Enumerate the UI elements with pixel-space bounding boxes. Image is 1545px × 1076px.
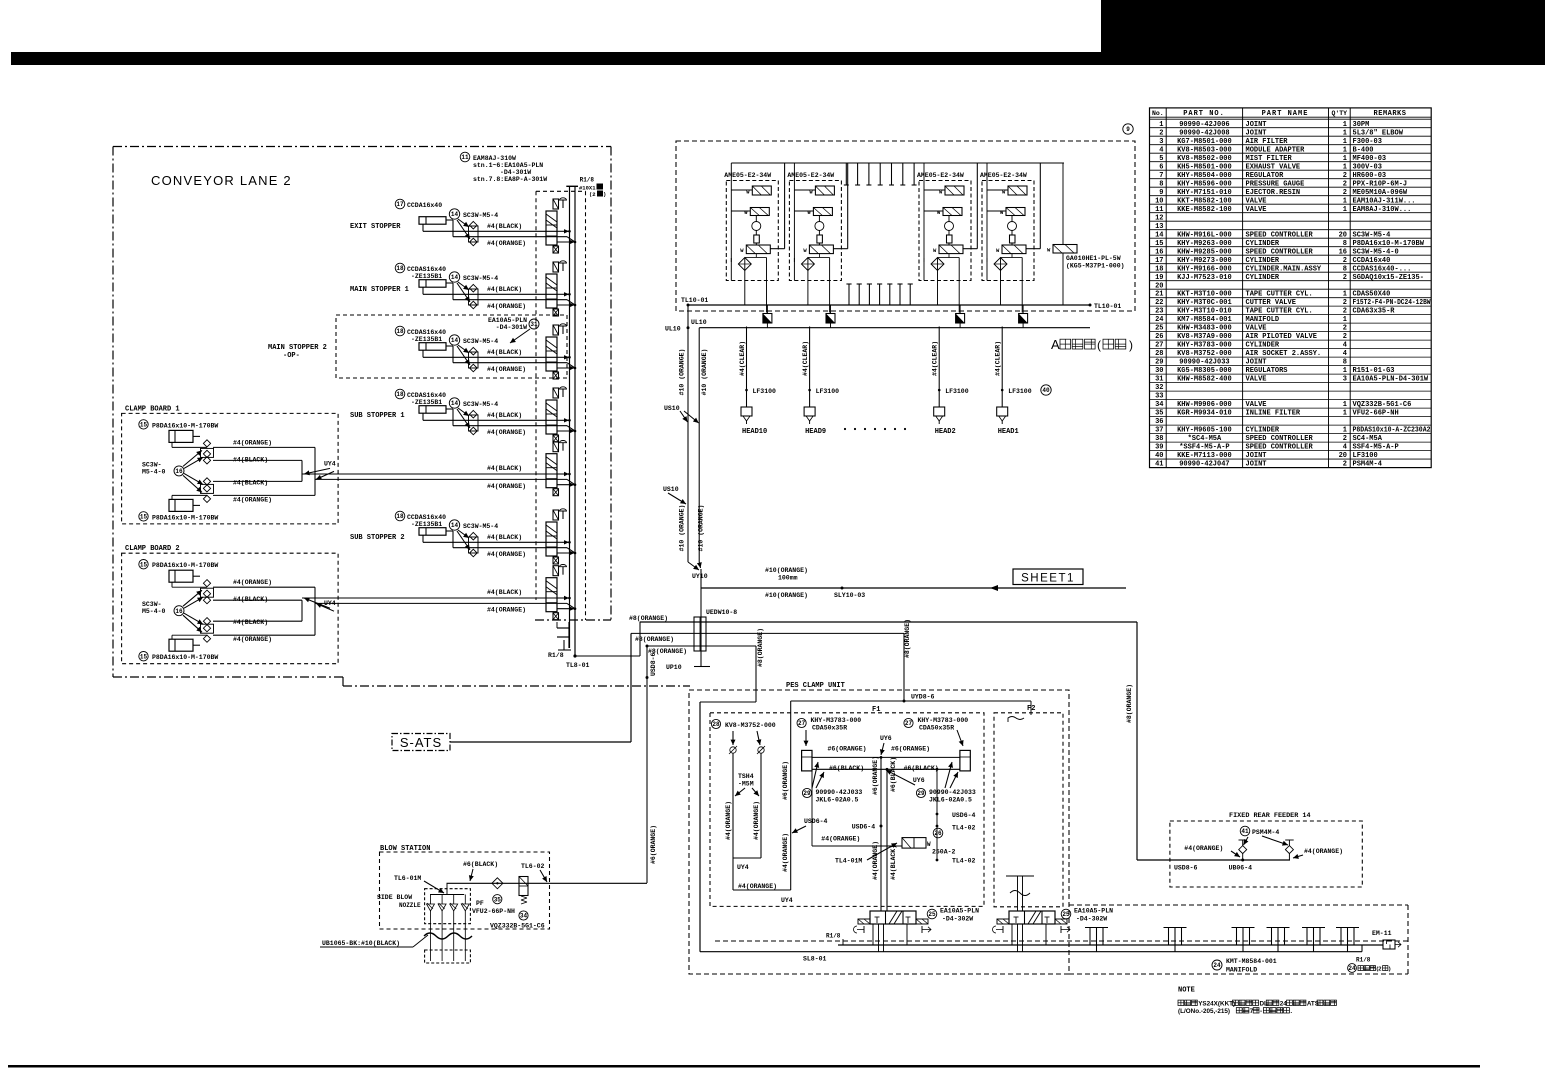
svg-text:14: 14 — [451, 211, 459, 218]
svg-text:NOZZLE: NOZZLE — [399, 902, 421, 909]
svg-text:KV8-M8503-000: KV8-M8503-000 — [1177, 146, 1232, 154]
svg-text:29: 29 — [1155, 359, 1163, 367]
svg-text:1: 1 — [1343, 367, 1347, 375]
svg-text:KHY-M3T0C-001: KHY-M3T0C-001 — [1177, 299, 1232, 307]
svg-text:CCDAS16x40: CCDAS16x40 — [407, 329, 446, 336]
svg-text:R1/8: R1/8 — [1356, 957, 1371, 964]
svg-text:16: 16 — [1155, 248, 1163, 256]
svg-text:USD6-4: USD6-4 — [804, 818, 828, 825]
svg-text:34: 34 — [520, 913, 528, 920]
svg-text:YS24X(KKT): YS24X(KKT) — [1198, 1001, 1235, 1008]
pipe manifold main — [826, 933, 1383, 946]
svg-text:KHY-M7151-010: KHY-M7151-010 — [1177, 189, 1232, 197]
union UEDW10-8 — [694, 588, 737, 666]
svg-text:9: 9 — [1126, 126, 1130, 133]
svg-text:SC3W-M5-4: SC3W-M5-4 — [463, 401, 498, 408]
svg-text:17: 17 — [1155, 257, 1163, 265]
valve EA10A5 no.2 — [993, 908, 1114, 952]
svg-text:#8(ORANGE): #8(ORANGE) — [1126, 684, 1133, 723]
valve manifold column dashed borders — [536, 191, 586, 620]
svg-text:#6(ORANGE): #6(ORANGE) — [828, 746, 867, 753]
svg-text:#4(ORANGE): #4(ORANGE) — [487, 551, 526, 558]
svg-text:16: 16 — [1339, 248, 1347, 256]
svg-text:PSM4M-4: PSM4M-4 — [1353, 461, 1382, 469]
svg-text:27: 27 — [1155, 342, 1163, 350]
svg-text:25: 25 — [1155, 325, 1163, 333]
svg-text:JOINT: JOINT — [1246, 121, 1267, 129]
head branch HEAD9 — [802, 305, 839, 436]
svg-text:2: 2 — [1343, 333, 1347, 341]
svg-text:2: 2 — [1343, 299, 1347, 307]
svg-text:CLAMP BOARD 2: CLAMP BOARD 2 — [125, 545, 180, 553]
svg-text:SC3W-M5-4: SC3W-M5-4 — [1353, 231, 1391, 239]
svg-text:1: 1 — [1343, 146, 1347, 154]
svg-text:LF3100: LF3100 — [816, 388, 840, 395]
svg-text:32: 32 — [1155, 384, 1163, 392]
ellipsis between heads — [844, 428, 906, 430]
svg-text:TL10-01: TL10-01 — [681, 297, 708, 304]
parts table — [1150, 108, 1432, 469]
svg-text:35: 35 — [1155, 410, 1163, 418]
svg-text:18: 18 — [396, 391, 404, 398]
svg-text:22: 22 — [1155, 299, 1163, 307]
svg-text:JOINT: JOINT — [1246, 359, 1267, 367]
svg-text:4: 4 — [1343, 444, 1347, 452]
svg-text:2: 2 — [1343, 172, 1347, 180]
svg-text:JKL6-02A0.5: JKL6-02A0.5 — [929, 797, 972, 804]
svg-text:30: 30 — [1155, 367, 1163, 375]
svg-text:KKE-M8582-100: KKE-M8582-100 — [1177, 206, 1232, 214]
svg-text:27: 27 — [798, 720, 806, 727]
svg-text:P8DA16x10-M-170BW: P8DA16x10-M-170BW — [152, 514, 218, 521]
svg-text:US10: US10 — [663, 486, 679, 493]
riser pipes US10 labels — [663, 349, 708, 552]
svg-text:UL10: UL10 — [665, 326, 681, 333]
svg-text:EAM8AJ-310W: EAM8AJ-310W — [473, 155, 516, 162]
valve V6 (sub stopper 2) — [546, 509, 576, 564]
svg-text:CCDAS16x40: CCDAS16x40 — [407, 514, 446, 521]
svg-text:-OP-: -OP- — [283, 352, 300, 360]
svg-text:(: ( — [1097, 338, 1101, 352]
svg-text:#4(ORANGE): #4(ORANGE) — [487, 240, 526, 247]
note text — [1178, 987, 1336, 1016]
svg-text:MAIN STOPPER 2: MAIN STOPPER 2 — [268, 344, 327, 352]
svg-text:LF3100: LF3100 — [753, 388, 777, 395]
svg-text:-ZE135B1: -ZE135B1 — [411, 399, 442, 406]
svg-text:MIST FILTER: MIST FILTER — [1246, 155, 1293, 163]
svg-text:W: W — [927, 841, 931, 848]
svg-text:LF3100: LF3100 — [945, 388, 969, 395]
clamp board 1 — [122, 405, 575, 524]
svg-text:#4(ORANGE): #4(ORANGE) — [1184, 845, 1223, 852]
svg-text:SLY10-03: SLY10-03 — [834, 592, 865, 599]
svg-text:SC3W-M5-4: SC3W-M5-4 — [463, 523, 498, 530]
stopper unit SUB STOPPER 1 — [350, 389, 575, 436]
svg-text:P8DA16x10-M-170BW: P8DA16x10-M-170BW — [152, 654, 218, 661]
svg-text:#6(BLACK): #6(BLACK) — [904, 765, 939, 772]
svg-text:#4(CLEAR): #4(CLEAR) — [932, 341, 939, 376]
svg-text:1: 1 — [1343, 401, 1347, 409]
svg-text:SPEED CONTROLLER: SPEED CONTROLLER — [1246, 435, 1314, 443]
svg-text:MODULE ADAPTER: MODULE ADAPTER — [1246, 146, 1306, 154]
svg-text:HEAD2: HEAD2 — [935, 428, 956, 436]
svg-text:#4(CLEAR): #4(CLEAR) — [739, 341, 746, 376]
svg-text:VFU2-66P-NH: VFU2-66P-NH — [472, 908, 515, 915]
svg-text:KHW-M3483-000: KHW-M3483-000 — [1177, 325, 1232, 333]
svg-text:14: 14 — [451, 400, 459, 407]
svg-text:27: 27 — [905, 720, 913, 727]
svg-text:M5-4-0: M5-4-0 — [142, 608, 166, 615]
svg-text:300V-03: 300V-03 — [1353, 163, 1382, 171]
svg-text:14: 14 — [451, 274, 459, 281]
svg-text:VALVE: VALVE — [1246, 376, 1267, 384]
svg-text:KGR-M9934-010: KGR-M9934-010 — [1177, 410, 1232, 418]
svg-text:*SC4-M5A: *SC4-M5A — [1188, 435, 1222, 443]
svg-text:UY6: UY6 — [880, 735, 892, 742]
svg-text:#4(ORANGE): #4(ORANGE) — [487, 483, 526, 490]
svg-text:EAM10AJ-311W...: EAM10AJ-311W... — [1353, 197, 1416, 205]
svg-text:10: 10 — [1155, 197, 1163, 205]
svg-text:): ) — [1389, 967, 1391, 973]
svg-text:15: 15 — [140, 422, 148, 429]
A-head outer dashed box — [676, 141, 1135, 311]
ejector unit U4 AME05-E2-34W — [980, 163, 1040, 313]
svg-text:8: 8 — [1343, 265, 1347, 273]
svg-text:#6(ORANGE): #6(ORANGE) — [650, 825, 657, 864]
svg-text:2: 2 — [1343, 274, 1347, 282]
svg-text:34: 34 — [1155, 401, 1163, 409]
svg-text:EA10A5-PLN: EA10A5-PLN — [940, 908, 979, 915]
svg-text:GA010HE1-PL-5W: GA010HE1-PL-5W — [1066, 255, 1121, 262]
A-head label (japanese) — [1051, 337, 1133, 352]
svg-text:#4(CLEAR): #4(CLEAR) — [802, 341, 809, 376]
svg-text:24: 24 — [1348, 965, 1356, 972]
svg-text:#6(BLACK): #6(BLACK) — [829, 765, 864, 772]
svg-text:SC3W-: SC3W- — [142, 601, 162, 608]
svg-text:JOINT: JOINT — [1246, 129, 1267, 137]
svg-text:R1/8: R1/8 — [580, 177, 595, 184]
svg-text:F1: F1 — [872, 706, 880, 714]
svg-text:#4(ORANGE): #4(ORANGE) — [487, 429, 526, 436]
svg-text:#4(ORANGE): #4(ORANGE) — [782, 833, 789, 872]
svg-text:2: 2 — [1343, 189, 1347, 197]
GA010HE1 valve — [1047, 163, 1125, 305]
head supply bottom comb — [846, 284, 912, 305]
svg-text:15: 15 — [140, 514, 148, 521]
svg-text:26: 26 — [1155, 333, 1163, 341]
svg-text:#8(ORANGE): #8(ORANGE) — [629, 615, 668, 622]
svg-text:8: 8 — [1343, 240, 1347, 248]
svg-text:TL6-02: TL6-02 — [521, 863, 545, 870]
svg-text:17: 17 — [396, 201, 404, 208]
valve EA10A5 no.1 — [854, 908, 980, 952]
conveyor lane 2 boundary (dash-dot) — [113, 147, 690, 687]
svg-text:SGDAQ10x15-ZE135-: SGDAQ10x15-ZE135- — [1353, 274, 1424, 282]
svg-text:UY6: UY6 — [913, 777, 925, 784]
svg-text:USD8-6: USD8-6 — [650, 652, 657, 676]
svg-text:#4(ORANGE): #4(ORANGE) — [487, 366, 526, 373]
svg-text:KM7-M8584-001: KM7-M8584-001 — [1177, 316, 1232, 324]
svg-text:18: 18 — [396, 265, 404, 272]
svg-text:24: 24 — [1213, 962, 1221, 969]
svg-text:1: 1 — [1343, 291, 1347, 299]
svg-text:#10 (ORANGE): #10 (ORANGE) — [698, 505, 705, 552]
valve V3 (main stopper 2) — [546, 324, 576, 379]
svg-text:UEDW10-8: UEDW10-8 — [706, 609, 737, 616]
svg-text:B-400: B-400 — [1353, 146, 1374, 154]
svg-text:SC3W-: SC3W- — [142, 461, 162, 468]
svg-text:#4(BLACK): #4(BLACK) — [233, 619, 268, 626]
svg-text:AIR PILOTED VALVE: AIR PILOTED VALVE — [1246, 333, 1317, 341]
svg-text:41: 41 — [1241, 828, 1249, 835]
svg-text:40: 40 — [1155, 452, 1163, 460]
svg-text:VALVE: VALVE — [1246, 206, 1267, 214]
svg-text:P8DA16x10-M-170BW: P8DA16x10-M-170BW — [1353, 240, 1425, 248]
svg-text:250A-2: 250A-2 — [932, 849, 956, 856]
svg-text:90990-42J033: 90990-42J033 — [1179, 359, 1229, 367]
svg-text:#4(ORANGE): #4(ORANGE) — [821, 836, 860, 843]
svg-text:M5-4-0: M5-4-0 — [142, 468, 166, 475]
svg-text:Q'TY: Q'TY — [1331, 110, 1347, 117]
svg-text:.: . — [1290, 1008, 1292, 1015]
bus end drain block — [557, 622, 571, 650]
svg-text:1: 1 — [1343, 138, 1347, 146]
svg-text:SPEED CONTROLLER: SPEED CONTROLLER — [1246, 444, 1314, 452]
svg-text:AIR FILTER: AIR FILTER — [1246, 138, 1289, 146]
svg-text:-ZE135B1: -ZE135B1 — [411, 336, 442, 343]
svg-text:KJJ-M7523-010: KJJ-M7523-010 — [1177, 274, 1232, 282]
svg-text:28: 28 — [1155, 350, 1163, 358]
svg-text:CCDA16x40: CCDA16x40 — [407, 202, 442, 209]
svg-text:PF: PF — [476, 900, 484, 907]
svg-text:90990-42J033: 90990-42J033 — [929, 789, 976, 796]
svg-text:CONVEYOR LANE 2: CONVEYOR LANE 2 — [151, 173, 292, 188]
svg-text:1: 1 — [1343, 197, 1347, 205]
svg-text:9: 9 — [1159, 189, 1163, 197]
valve V4 (sub stopper 1) — [546, 387, 576, 442]
pipe note R1/8 (2B) — [1348, 957, 1391, 973]
svg-text:KV8-M37A9-000: KV8-M37A9-000 — [1177, 333, 1232, 341]
svg-text:90990-42J008: 90990-42J008 — [1179, 129, 1229, 137]
svg-text:CYLINDER: CYLINDER — [1246, 342, 1280, 350]
S-ATS box — [392, 734, 450, 751]
svg-text:33: 33 — [1155, 393, 1163, 401]
svg-text:7: 7 — [1159, 172, 1163, 180]
svg-text:18: 18 — [1155, 265, 1163, 273]
svg-text:100mm: 100mm — [778, 575, 798, 582]
pipe SL8-01 — [700, 945, 1362, 963]
svg-text:KHY-M3783-000: KHY-M3783-000 — [1177, 342, 1232, 350]
wire #8(ORANGE) to UYD8-6 — [631, 619, 911, 701]
svg-text:US10: US10 — [664, 405, 680, 412]
svg-text:R1/8: R1/8 — [548, 652, 564, 659]
PES clamp unit dashed box — [689, 682, 1069, 974]
svg-text:VALVE: VALVE — [1246, 401, 1267, 409]
svg-text:18: 18 — [396, 328, 404, 335]
svg-text:#6(ORANGE): #6(ORANGE) — [782, 761, 789, 800]
svg-text:EA10A5-PLN-D4-301W: EA10A5-PLN-D4-301W — [1353, 376, 1429, 384]
svg-text:NOTE: NOTE — [1178, 987, 1195, 995]
svg-text:KHY-M8504-000: KHY-M8504-000 — [1177, 172, 1232, 180]
svg-text:VQZ332B-5G1-C6: VQZ332B-5G1-C6 — [490, 923, 545, 930]
svg-text:TSH4: TSH4 — [738, 773, 754, 780]
svg-text:#4(BLACK): #4(BLACK) — [487, 223, 522, 230]
svg-text:29: 29 — [917, 790, 925, 797]
svg-text:INLINE FILTER: INLINE FILTER — [1246, 410, 1301, 418]
svg-text:29: 29 — [803, 790, 811, 797]
svg-text:CDA63x35-R: CDA63x35-R — [1353, 308, 1396, 316]
svg-text:CYLINDER: CYLINDER — [1246, 257, 1280, 265]
title block top-right — [1101, 0, 1545, 53]
svg-text:KV8-M3752-000: KV8-M3752-000 — [725, 722, 776, 729]
svg-text:REMARKS: REMARKS — [1374, 110, 1407, 118]
svg-text:#4(BLACK): #4(BLACK) — [487, 589, 522, 596]
svg-text:REGULATOR: REGULATOR — [1246, 172, 1285, 180]
SHEET1 box — [1013, 569, 1083, 585]
svg-text:39: 39 — [1155, 444, 1163, 452]
stopper unit MAIN STOPPER 2 — [268, 317, 575, 373]
svg-text:#4(ORANGE): #4(ORANGE) — [233, 636, 272, 643]
svg-text:-M5M: -M5M — [738, 781, 754, 788]
svg-text:2: 2 — [1343, 257, 1347, 265]
svg-text:F15T2-F4-PN-DC24-12BW: F15T2-F4-PN-DC24-12BW — [1353, 299, 1432, 307]
fixed rear feeder 14 — [1170, 812, 1362, 887]
svg-text:6: 6 — [1159, 163, 1163, 171]
svg-text:SPEED CONTROLLER: SPEED CONTROLLER — [1246, 231, 1314, 239]
svg-text:CDA50x35R: CDA50x35R — [919, 725, 954, 732]
svg-text:(KG5-M37P1-000): (KG5-M37P1-000) — [1066, 263, 1125, 270]
svg-text:#6(ORANGE): #6(ORANGE) — [891, 746, 930, 753]
svg-text:20: 20 — [1339, 231, 1347, 239]
svg-text:#4(ORANGE): #4(ORANGE) — [872, 841, 879, 880]
svg-text:*SSF4-M5-A-P: *SSF4-M5-A-P — [1179, 444, 1229, 452]
svg-text:11: 11 — [461, 154, 469, 161]
svg-text:S-ATS: S-ATS — [400, 735, 442, 750]
svg-text:#4(ORANGE): #4(ORANGE) — [233, 579, 272, 586]
svg-text:18: 18 — [396, 513, 404, 520]
svg-text:28: 28 — [712, 721, 720, 728]
connector EM-11 — [1372, 930, 1401, 949]
svg-text:12: 12 — [1155, 214, 1163, 222]
bus UL10 — [665, 319, 1090, 562]
svg-text:KKE-M7113-000: KKE-M7113-000 — [1177, 452, 1232, 460]
svg-text:CLAMP BOARD 1: CLAMP BOARD 1 — [125, 405, 180, 413]
svg-text:CCDAS16x40: CCDAS16x40 — [407, 266, 446, 273]
svg-text:1: 1 — [1343, 316, 1347, 324]
svg-text:KG5-M8305-000: KG5-M8305-000 — [1177, 367, 1232, 375]
svg-text:No.: No. — [1152, 110, 1164, 117]
valve 250A-2 TL4-01M — [812, 771, 956, 865]
svg-text:MF400-03: MF400-03 — [1353, 155, 1387, 163]
svg-text:25: 25 — [1062, 911, 1070, 918]
svg-text:2: 2 — [1343, 435, 1347, 443]
svg-text:#4(ORANGE): #4(ORANGE) — [233, 439, 272, 446]
clamp board 2 — [122, 545, 575, 664]
svg-text:2: 2 — [1343, 308, 1347, 316]
svg-text:35: 35 — [494, 896, 502, 903]
svg-text:stn.7.8:EA8P-A-301W: stn.7.8:EA8P-A-301W — [473, 176, 547, 183]
svg-text:#6(ORANGE): #6(ORANGE) — [872, 756, 879, 795]
svg-text:CYLINDER.MAIN.ASSY: CYLINDER.MAIN.ASSY — [1246, 265, 1322, 273]
svg-text:R1/8: R1/8 — [826, 933, 841, 940]
svg-text:14: 14 — [1155, 231, 1163, 239]
svg-text:UY4: UY4 — [781, 897, 793, 904]
svg-text:14: 14 — [451, 337, 459, 344]
svg-text:2: 2 — [1343, 461, 1347, 469]
node 9 callout — [1123, 124, 1133, 134]
svg-text:TL6-01M: TL6-01M — [394, 875, 421, 882]
svg-text:#4(ORANGE): #4(ORANGE) — [753, 801, 760, 840]
svg-text:#4(ORANGE): #4(ORANGE) — [1304, 848, 1343, 855]
head supply top comb — [731, 163, 1064, 185]
svg-text:LF3100: LF3100 — [1008, 388, 1032, 395]
svg-text:24: 24 — [1155, 316, 1163, 324]
svg-text:-ZE135B1: -ZE135B1 — [411, 521, 442, 528]
svg-text:#10 (ORANGE): #10 (ORANGE) — [678, 505, 685, 552]
svg-text:38: 38 — [1155, 435, 1163, 443]
F1 dashed box — [710, 706, 984, 906]
svg-text:SIDE BLOW: SIDE BLOW — [377, 894, 412, 901]
F1 distribution risers — [792, 756, 976, 911]
svg-text:TAPE CUTTER CYL.: TAPE CUTTER CYL. — [1246, 291, 1313, 299]
svg-text:#4(ORANGE): #4(ORANGE) — [738, 883, 777, 890]
svg-text:AIR SOCKET 2.ASSY.: AIR SOCKET 2.ASSY. — [1246, 350, 1322, 358]
svg-text:36: 36 — [1155, 418, 1163, 426]
stopper unit EXIT STOPPER — [350, 199, 575, 247]
ejector unit U3 AME05-E2-34W — [917, 163, 977, 313]
air supply bus lines — [566, 186, 578, 656]
svg-text:90990-42J006: 90990-42J006 — [1179, 121, 1229, 129]
svg-text:24: 24 — [1280, 1001, 1288, 1008]
svg-text:): ) — [603, 191, 606, 198]
svg-text:EJECTOR.RESIN: EJECTOR.RESIN — [1246, 189, 1301, 197]
air socket assembly KV8-M3752 — [711, 719, 792, 904]
svg-text:CYLINDER: CYLINDER — [1246, 240, 1280, 248]
svg-text:SC3W-M5-4: SC3W-M5-4 — [463, 212, 498, 219]
svg-text:KHY-M9273-000: KHY-M9273-000 — [1177, 257, 1232, 265]
svg-text:HEAD1: HEAD1 — [998, 428, 1019, 436]
svg-text:#4(CLEAR): #4(CLEAR) — [995, 341, 1002, 376]
svg-text:KHY-M9166-000: KHY-M9166-000 — [1177, 265, 1232, 273]
svg-text:-: - — [1260, 1008, 1262, 1015]
svg-text:KH5-M8501-000: KH5-M8501-000 — [1177, 163, 1232, 171]
svg-text:KHW-M9906-000: KHW-M9906-000 — [1177, 401, 1232, 409]
bus TL10-01 — [681, 297, 1121, 562]
svg-text:JOINT: JOINT — [1246, 461, 1267, 469]
wire to SHEET1 — [701, 567, 1126, 599]
svg-text:SL8-01: SL8-01 — [803, 956, 827, 963]
svg-text:26: 26 — [934, 830, 942, 837]
F2 bottom break — [1006, 876, 1034, 911]
svg-text:KV8-M8502-000: KV8-M8502-000 — [1177, 155, 1232, 163]
svg-text:#4(ORANGE): #4(ORANGE) — [233, 496, 272, 503]
svg-text:-D4-301W: -D4-301W — [496, 324, 527, 331]
svg-text:EM-11: EM-11 — [1372, 930, 1392, 937]
svg-text:-D4-302W: -D4-302W — [1076, 916, 1107, 923]
node TL8-01 — [548, 652, 590, 669]
svg-text:3: 3 — [1159, 138, 1163, 146]
wire #8(ORANGE) main to feeder — [575, 615, 1290, 860]
svg-text:8: 8 — [1343, 359, 1347, 367]
svg-text:16: 16 — [175, 468, 183, 475]
svg-text:TL4-01M: TL4-01M — [835, 858, 862, 865]
svg-text:EXIT STOPPER: EXIT STOPPER — [350, 223, 401, 231]
svg-text:20: 20 — [1155, 282, 1163, 290]
svg-text:2: 2 — [1159, 129, 1163, 137]
svg-text:JOINT: JOINT — [1246, 452, 1267, 460]
valve V5 (clamp board 1) — [546, 441, 576, 496]
svg-text:PSM4M-4: PSM4M-4 — [1252, 829, 1279, 836]
